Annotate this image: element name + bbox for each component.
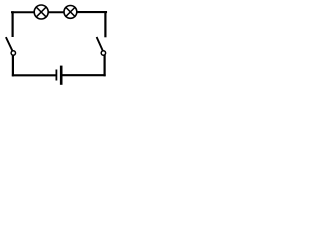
switch S1 pivot circle bbox=[11, 51, 15, 55]
lamp X1 cross stroke 2 bbox=[36, 7, 46, 17]
lamp X2 cross stroke 1 bbox=[66, 7, 75, 16]
battery negative plate (short) bbox=[55, 70, 57, 79]
wire left vertical lower bbox=[12, 56, 14, 76]
lamp X1 (circle) bbox=[34, 5, 48, 19]
wire right vertical lower bbox=[103, 56, 105, 75]
battery positive plate (long) bbox=[60, 67, 63, 84]
wire top-right horizontal bbox=[78, 11, 106, 13]
wire bottom-left horizontal bbox=[13, 74, 56, 76]
switch S2 blade (open) bbox=[97, 38, 102, 50]
lamp X2 cross stroke 2 bbox=[66, 7, 75, 16]
lamp X2 (circle) bbox=[64, 5, 77, 18]
wire between lamps bbox=[49, 11, 63, 13]
switch S1 blade (open) bbox=[6, 38, 12, 50]
wire left vertical upper bbox=[12, 12, 14, 36]
wire top-left horizontal bbox=[12, 11, 34, 13]
wire bottom-right horizontal bbox=[62, 74, 104, 76]
wire right vertical upper bbox=[104, 12, 106, 36]
lamp X1 cross stroke 1 bbox=[36, 7, 46, 17]
switch S2 pivot circle bbox=[101, 51, 105, 55]
